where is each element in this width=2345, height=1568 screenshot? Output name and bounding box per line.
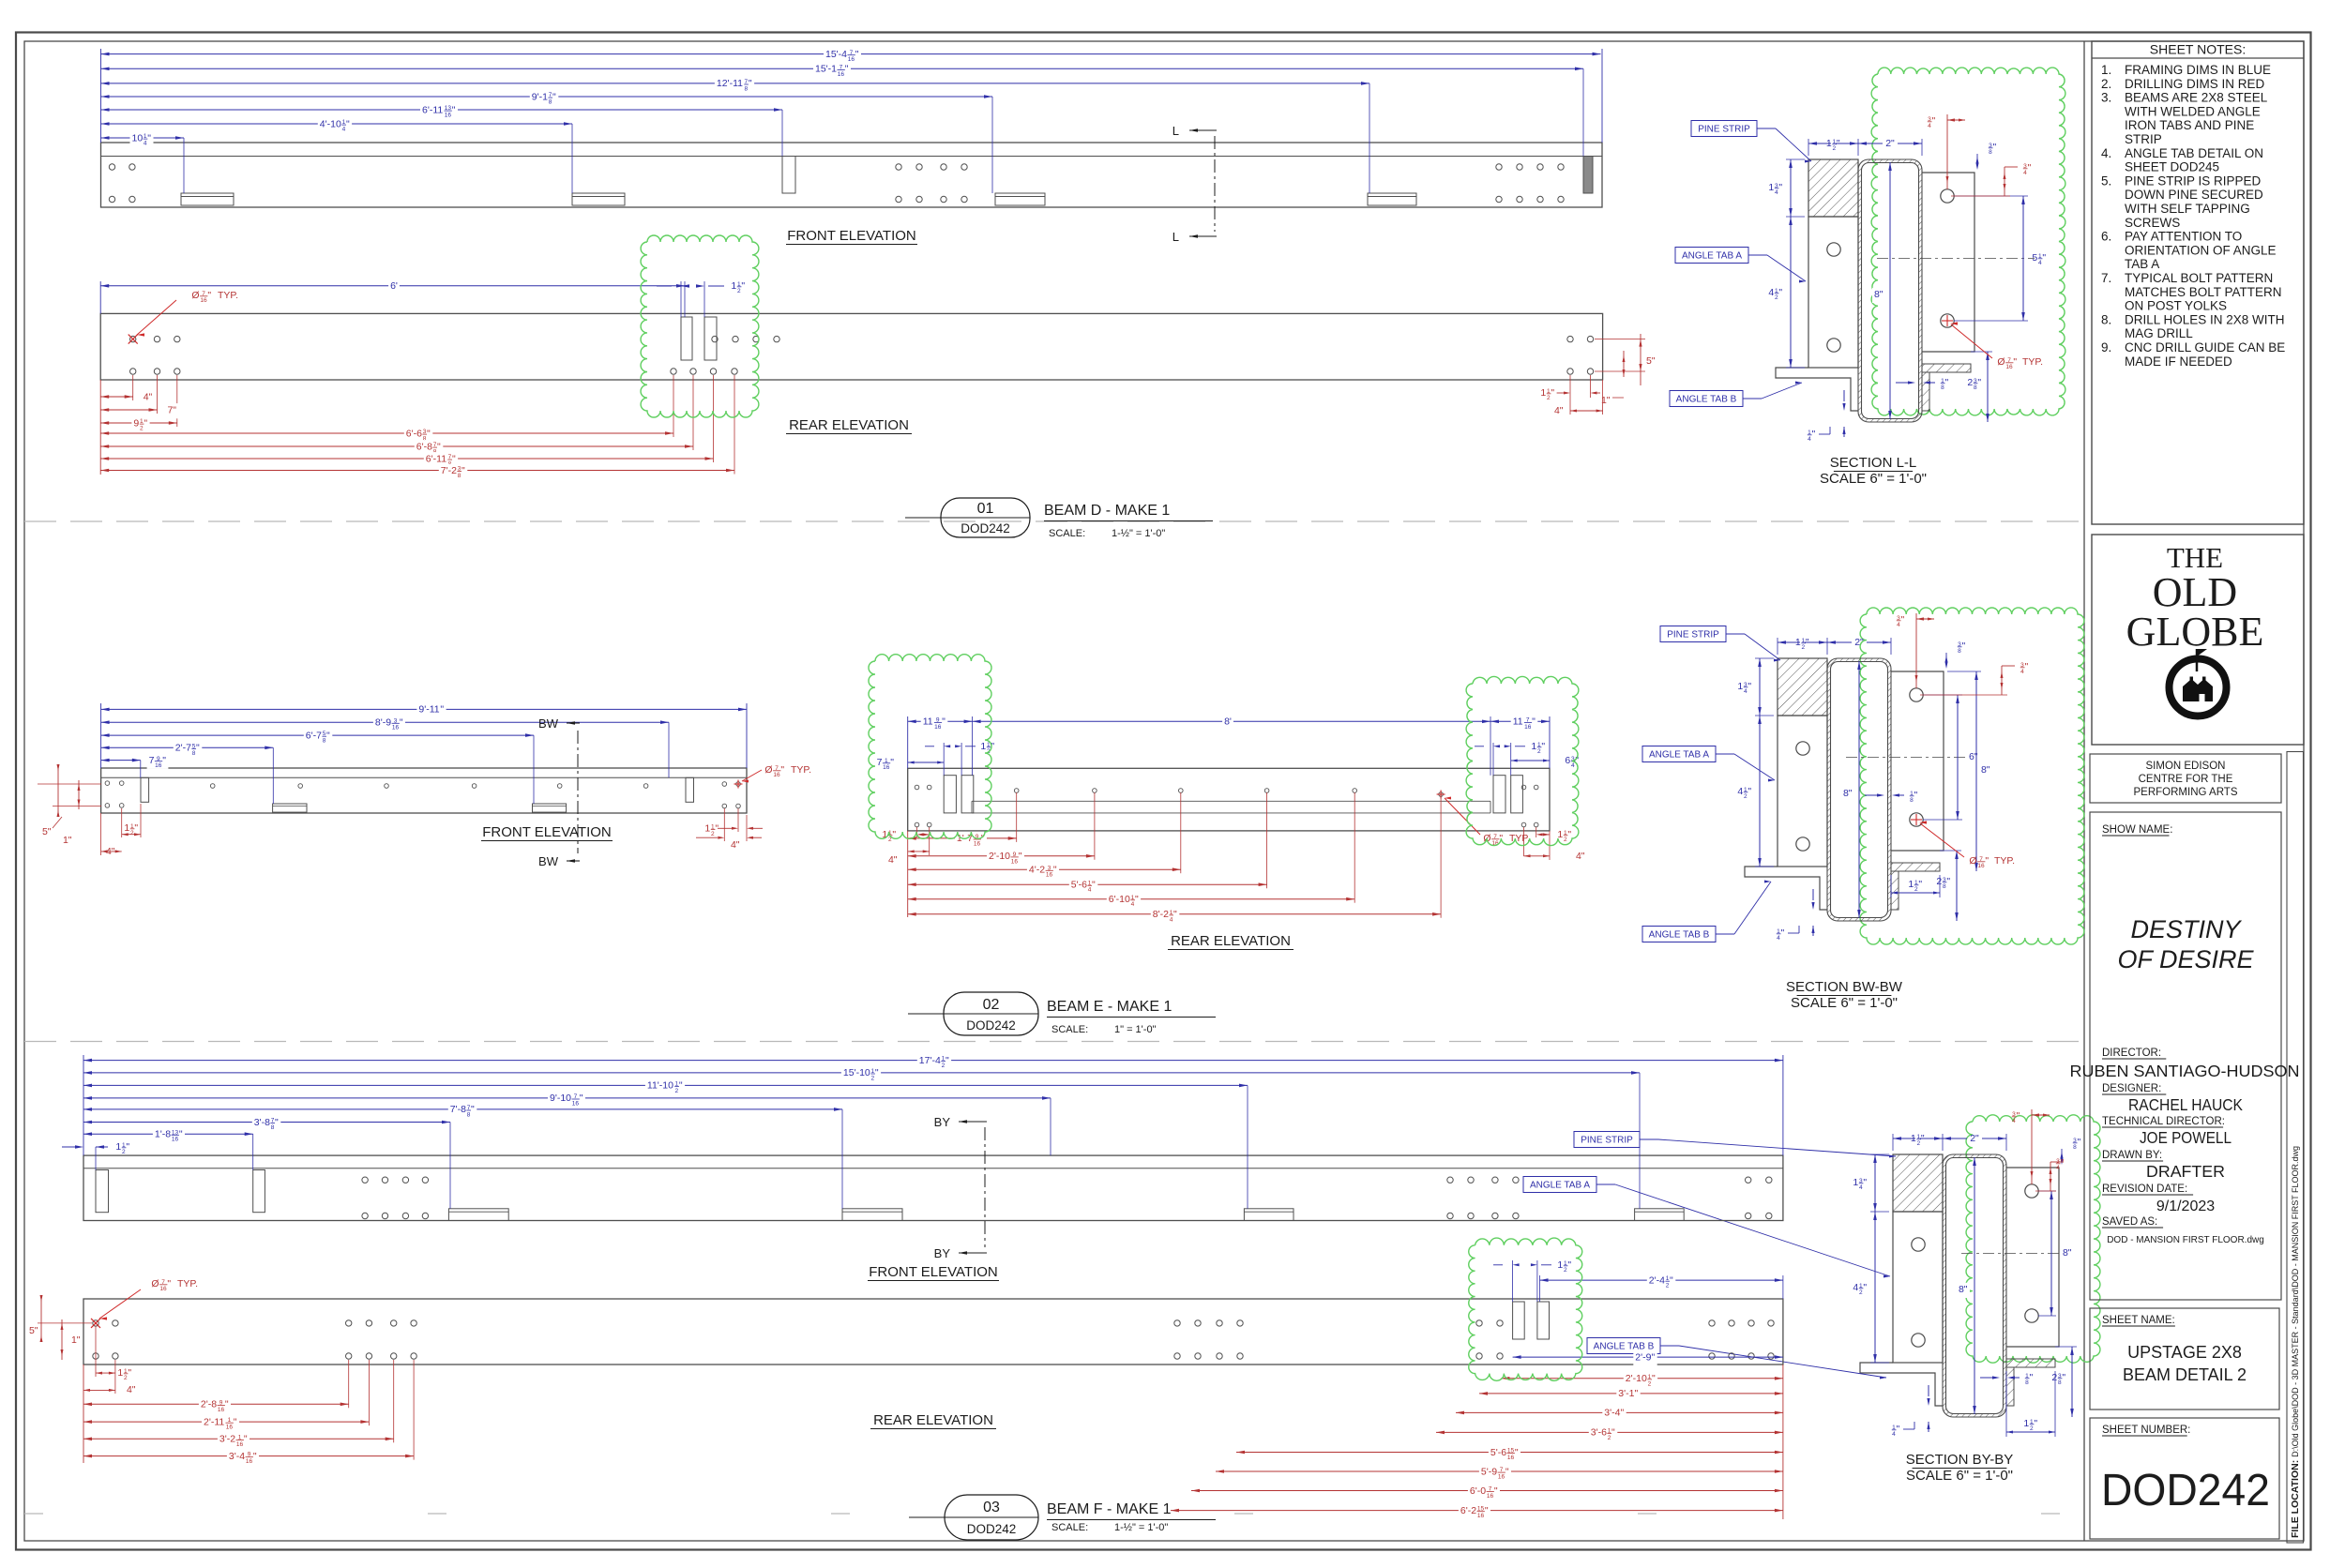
svg-text:BW: BW (538, 854, 559, 868)
revision cloud beam D rear slots (641, 235, 759, 417)
svg-text:16: 16 (1507, 1455, 1515, 1461)
beam D framing dim 9'-1 (101, 96, 993, 98)
svg-text:1: 1 (115, 1141, 121, 1153)
svg-text:5.: 5. (2101, 173, 2111, 188)
beam E rear drilling dim 4'-2 (908, 868, 1181, 870)
svg-text:16: 16 (236, 1441, 244, 1448)
svg-text:": " (253, 1451, 257, 1462)
svg-text:4: 4 (1744, 688, 1747, 695)
beam D dim leader (1582, 68, 1584, 156)
beam D rear pine strip dim 6ft (100, 285, 685, 287)
svg-text:": " (2042, 252, 2046, 264)
section BY-BY red dim 3/4 upper (2031, 1109, 2033, 1184)
svg-text:": " (326, 730, 330, 741)
svg-text:8': 8' (1224, 716, 1232, 728)
svg-text:": " (1494, 1485, 1498, 1497)
svg-text:1: 1 (117, 1367, 123, 1379)
svg-text:9.: 9. (2101, 340, 2111, 354)
beam E front drill leader Ø7/16 TYP (734, 783, 743, 785)
svg-text:DESIGNER:: DESIGNER: (2102, 1083, 2161, 1094)
svg-text:GLOBE: GLOBE (2126, 609, 2264, 655)
section L-L dim 1-1/2 top (1808, 139, 1809, 156)
svg-text:2: 2 (2051, 1372, 2057, 1383)
beam E framing dim 2'-7 (101, 746, 274, 748)
beam D dim leader (1369, 83, 1370, 193)
svg-text:ANGLE TAB A: ANGLE TAB A (1682, 251, 1742, 262)
svg-text:SCREWS: SCREWS (2125, 216, 2180, 230)
svg-text:16: 16 (246, 1458, 253, 1465)
svg-text:8: 8 (1958, 648, 1961, 655)
svg-text:TYP.: TYP. (791, 764, 811, 776)
revision cloud section BW-BW (1860, 608, 2084, 944)
svg-text:16: 16 (392, 725, 400, 731)
beam E front slot right (686, 777, 694, 802)
svg-text:6'-6: 6'-6 (406, 428, 422, 439)
svg-text:": " (890, 757, 894, 768)
svg-text:2: 2 (870, 1075, 874, 1081)
svg-text:": " (1505, 1466, 1509, 1477)
section L-L label ANGLE TAB B (1670, 391, 1743, 407)
beam D framing dimension extension lines (100, 49, 102, 143)
svg-text:9: 9 (133, 417, 139, 429)
beam D front elevation body (101, 143, 1603, 207)
svg-text:DOWN PINE SECURED: DOWN PINE SECURED (2125, 188, 2263, 202)
beam F rear drilling dim 2'-10 (1501, 1378, 1783, 1380)
svg-text:SECTION L-L: SECTION L-L (1830, 455, 1917, 471)
beam F rear blue slot dims (1512, 1260, 1514, 1302)
beam E rear slot dims 1-1/2 (943, 743, 945, 776)
section L-L red dim 3/4 right (2005, 166, 2018, 168)
section BY-BY red dim 3/4 right (2050, 1161, 2064, 1163)
section BY-BY label PINE STRIP (1574, 1132, 1640, 1148)
section L-L dim 1/8 wall (1908, 381, 1915, 384)
section L-L red drill leader (1942, 320, 1953, 322)
svg-text:4: 4 (1853, 1282, 1858, 1293)
svg-text:": " (452, 453, 456, 464)
svg-text:BEAMS ARE 2X8 STEEL: BEAMS ARE 2X8 STEEL (2125, 91, 2268, 105)
svg-text:3'-8: 3'-8 (254, 1117, 270, 1128)
svg-text:6': 6' (390, 280, 398, 292)
svg-text:": " (48, 826, 52, 837)
svg-text:4: 4 (2020, 669, 2024, 675)
svg-text:PINE STRIP: PINE STRIP (1581, 1136, 1633, 1146)
svg-text:2: 2 (1744, 793, 1747, 800)
svg-text:8: 8 (2025, 1380, 2029, 1386)
svg-text:SHEET NUMBER:: SHEET NUMBER: (2102, 1425, 2190, 1436)
svg-text:": " (1551, 387, 1554, 399)
svg-text:": " (452, 104, 456, 115)
svg-text:": " (440, 704, 444, 716)
svg-text:": " (2068, 1247, 2072, 1259)
section BY-BY dim 2in top (1943, 1138, 1967, 1139)
svg-text:ORIENTATION OF ANGLE: ORIENTATION OF ANGLE (2125, 243, 2277, 257)
svg-text:6: 6 (1565, 755, 1570, 766)
svg-text:": " (1532, 716, 1536, 728)
beam E rear drilling dim 5'-6 (908, 883, 1267, 885)
beam F front framing dims (83, 1055, 84, 1155)
svg-text:2: 2 (1648, 1380, 1652, 1387)
beam F dim leader (252, 1134, 254, 1169)
svg-text:15'-4: 15'-4 (825, 49, 847, 60)
section BW-BW red dim 3/4 right (2002, 665, 2015, 667)
svg-text:REVISION DATE:: REVISION DATE: (2102, 1184, 2187, 1195)
revision cloud beam F rear slots (1469, 1238, 1582, 1380)
svg-text:BEAM D - MAKE 1: BEAM D - MAKE 1 (1044, 503, 1170, 519)
beam D framing dim 12'-11 (101, 83, 1370, 84)
drawing title bubble 02 BEAM E (908, 1013, 944, 1015)
svg-text:": " (1837, 138, 1840, 149)
section BW-BW label PINE STRIP (1660, 626, 1726, 642)
section BW-BW angle tab B (hatched) (1891, 863, 1940, 871)
section BW-BW steel 2x8 tube (hatched wall) (1827, 658, 1891, 921)
revision cloud section L-L (1871, 68, 2065, 415)
svg-text:1: 1 (2023, 1418, 2029, 1429)
sheet name panel (2090, 1308, 2279, 1410)
beam F rear slots right (1513, 1302, 1525, 1339)
section L-L dim 1/4 bottom left (1842, 403, 1845, 411)
beam F framing dim 1'-8 (83, 1133, 253, 1135)
section BW-BW label ANGLE TAB A (1642, 746, 1716, 762)
svg-text:": " (112, 846, 115, 857)
svg-text:1" = 1'-0": 1" = 1'-0" (1114, 1024, 1157, 1035)
svg-text:": " (1621, 1408, 1625, 1419)
svg-text:6'-0: 6'-0 (1470, 1485, 1486, 1497)
beam E front framing dims (100, 703, 102, 768)
svg-text:2: 2 (2030, 1425, 2034, 1432)
svg-text:": " (346, 118, 350, 129)
svg-text:TYP.: TYP. (1994, 855, 2015, 867)
svg-text:2: 2 (130, 830, 134, 837)
svg-text:": " (1932, 115, 1936, 127)
svg-text:8: 8 (1941, 384, 1944, 391)
svg-text:DOD242: DOD242 (966, 1018, 1016, 1033)
svg-text:": " (128, 1367, 131, 1379)
svg-text:WITH WELDED ANGLE: WITH WELDED ANGLE (2125, 104, 2261, 118)
beam F rear drilling dim 3'-4 (83, 1455, 414, 1457)
svg-text:": " (780, 764, 784, 776)
svg-text:": " (149, 391, 153, 402)
beam F rear red drilling dims right (1782, 1364, 1784, 1519)
beam F rear drill leader Ø7/16 TYP (91, 1319, 100, 1328)
svg-text:BEAM F - MAKE 1: BEAM F - MAKE 1 (1047, 1501, 1172, 1517)
svg-text:TYP.: TYP. (2022, 356, 2043, 368)
beam E rear red left end dims (916, 827, 918, 837)
svg-text:6'-8: 6'-8 (416, 441, 432, 452)
svg-text:": " (1747, 681, 1751, 692)
svg-text:": " (1173, 909, 1177, 920)
svg-text:03: 03 (983, 1500, 1000, 1515)
svg-text:2: 2 (1775, 294, 1778, 301)
svg-text:16: 16 (1477, 1513, 1485, 1519)
svg-text:15'-10: 15'-10 (843, 1067, 870, 1078)
section BY-BY post yoke plate (2006, 1168, 2059, 1347)
svg-text:8: 8 (2058, 1380, 2062, 1386)
show info panel (2090, 812, 2281, 1300)
section L-L dim 2in top (1858, 143, 1883, 144)
section BY-BY label ANGLE TAB A (1523, 1177, 1596, 1193)
section BW-BW dim 1/4 bottom left (1811, 902, 1814, 910)
svg-text:BEAM DETAIL 2: BEAM DETAIL 2 (2123, 1365, 2247, 1384)
svg-text:2'-7: 2'-7 (175, 743, 191, 754)
svg-text:16: 16 (883, 764, 890, 771)
svg-text:16: 16 (934, 724, 942, 731)
beam D framing dim 4'-10 (101, 123, 573, 125)
svg-text:3.: 3. (2101, 91, 2111, 105)
svg-text:4: 4 (1768, 287, 1774, 298)
svg-text:2'-10: 2'-10 (1626, 1373, 1647, 1384)
svg-text:SCALE:: SCALE: (1051, 1024, 1088, 1035)
svg-text:2: 2 (124, 1375, 128, 1381)
sidebar separator line (2083, 41, 2085, 1541)
section BW-BW red dim 3/4 upper (1915, 613, 1917, 688)
svg-text:2: 2 (674, 1088, 678, 1094)
svg-text:16: 16 (838, 71, 845, 78)
svg-text:": " (1747, 786, 1751, 797)
beam F front angle-tab flange 4 (1635, 1209, 1685, 1221)
svg-text:1: 1 (1768, 182, 1774, 193)
section BY-BY steel 2x8 tube (hatched wall) (1943, 1154, 2006, 1417)
beam F front elevation body (83, 1155, 1783, 1220)
svg-text:": " (1849, 788, 1853, 799)
svg-text:": " (244, 1434, 248, 1445)
section BW-BW dim right holes (1923, 694, 1962, 696)
beam E rear pine strip recess (972, 800, 1490, 802)
svg-text:4: 4 (2056, 1165, 2060, 1171)
svg-text:": " (1897, 1424, 1900, 1435)
svg-text:15'-1: 15'-1 (815, 64, 837, 75)
svg-text:CNC DRILL GUIDE CAN BE: CNC DRILL GUIDE CAN BE (2125, 340, 2285, 354)
svg-text:16: 16 (1524, 724, 1532, 731)
svg-text:": " (1670, 1274, 1673, 1286)
svg-text:1-½" = 1'-0": 1-½" = 1'-0" (1114, 1522, 1168, 1533)
svg-text:5'-6: 5'-6 (1071, 880, 1087, 891)
svg-text:ANGLE TAB B: ANGLE TAB B (1649, 930, 1710, 941)
svg-text:4: 4 (1777, 935, 1780, 942)
section BY-BY dim 2-3/8 right (2055, 1346, 2077, 1348)
svg-text:SCALE 6" = 1'-0": SCALE 6" = 1'-0" (1906, 1468, 2013, 1484)
svg-text:2: 2 (1564, 1267, 1567, 1274)
beam F rear red drilling dims left-mid (348, 1360, 350, 1408)
beam E rear red drilling dims (907, 831, 909, 917)
svg-text:CENTRE FOR THE: CENTRE FOR THE (2139, 774, 2233, 785)
svg-text:SHEET DOD245: SHEET DOD245 (2125, 160, 2219, 174)
svg-text:01: 01 (977, 501, 994, 517)
svg-text:": " (1652, 1351, 1656, 1363)
section L-L dim right holes (1954, 195, 2028, 197)
section BY-BY angle tab A bottom leg (1860, 1363, 1943, 1406)
svg-text:": " (1778, 287, 1782, 298)
svg-text:": " (1987, 764, 1990, 776)
svg-text:": " (679, 1080, 683, 1092)
beam E rear drilling dim 8'-2 (908, 913, 1441, 915)
svg-text:": " (234, 1416, 237, 1427)
beam F dim leader (1247, 1085, 1248, 1208)
svg-text:Ø: Ø (191, 290, 199, 301)
svg-text:3'-1: 3'-1 (1618, 1388, 1634, 1399)
beam D rear elevation body (100, 313, 1602, 380)
svg-text:3'-6: 3'-6 (1591, 1427, 1607, 1439)
svg-text:": " (1611, 1427, 1615, 1439)
beam F rear dim 2ft-9 (1513, 1356, 1783, 1358)
svg-text:2: 2 (1967, 377, 1973, 388)
section BW-BW red drill leader (1911, 819, 1922, 821)
svg-text:SCALE 6" = 1'-0": SCALE 6" = 1'-0" (1820, 471, 1927, 487)
svg-text:4: 4 (1131, 901, 1135, 908)
svg-text:2: 2 (1537, 748, 1541, 755)
svg-text:6'-11: 6'-11 (422, 104, 443, 115)
section BY-BY dim 1-1/2 top (1892, 1134, 1894, 1151)
beam E rear drilling dim 1'-7 (908, 837, 1017, 839)
svg-text:9'-11: 9'-11 (418, 704, 439, 716)
svg-text:2: 2 (122, 1149, 126, 1155)
svg-text:": " (1485, 1505, 1489, 1516)
beam F dim leader (95, 1147, 97, 1170)
section BW-BW dim 1/8 wall (1877, 793, 1884, 796)
section BY-BY dim right holes (2038, 1190, 2056, 1192)
svg-text:16: 16 (445, 113, 452, 119)
svg-text:9'-10: 9'-10 (550, 1093, 571, 1104)
svg-text:": " (942, 716, 946, 728)
beam F rear drilling dim 2'-8 (83, 1403, 349, 1405)
section BY-BY dim 1/4 bottom left (1927, 1398, 1929, 1406)
svg-text:4: 4 (1892, 1431, 1896, 1438)
beam D rear bolt holes mid upper row (712, 336, 718, 341)
svg-text:": " (1914, 790, 1918, 801)
svg-text:": " (2030, 1372, 2034, 1383)
svg-text:2: 2 (1859, 1289, 1863, 1296)
svg-text:6.: 6. (2101, 230, 2111, 244)
svg-text:2: 2 (1832, 145, 1836, 152)
svg-text:": " (1567, 829, 1571, 840)
section BW-BW dim 1-1/2 bottom right (1890, 875, 1892, 897)
svg-text:FRONT ELEVATION: FRONT ELEVATION (787, 228, 916, 244)
svg-text:2'-9: 2'-9 (1635, 1351, 1651, 1363)
svg-text:ANGLE TAB B: ANGLE TAB B (1676, 395, 1737, 405)
svg-text:16: 16 (226, 1425, 234, 1431)
beam E framing dim 9'-11 (101, 708, 747, 710)
section BW-BW dim 3/8 top right (1945, 653, 1947, 660)
svg-text:1: 1 (980, 741, 986, 752)
svg-text:8: 8 (1989, 149, 1992, 156)
drawing title bubble 01 BEAM D (905, 517, 941, 519)
svg-text:DRILL HOLES IN 2X8 WITH: DRILL HOLES IN 2X8 WITH (2125, 312, 2285, 326)
svg-text:1: 1 (1540, 387, 1546, 399)
svg-text:16: 16 (159, 1286, 167, 1292)
section BY-BY dim 3/8 top right (2061, 1149, 2063, 1156)
drawing title bubble 03 BEAM F (909, 1516, 945, 1518)
svg-text:": " (1019, 851, 1022, 862)
svg-text:SAVED AS:: SAVED AS: (2102, 1216, 2157, 1228)
svg-text:3'-2: 3'-2 (219, 1434, 235, 1445)
beam D rear bolt holes right group (1567, 336, 1573, 341)
svg-text:": " (1918, 879, 1922, 890)
svg-text:16: 16 (1498, 1474, 1505, 1481)
svg-text:": " (179, 1129, 183, 1140)
zone divider dashed line 2 (24, 1041, 2084, 1043)
svg-text:9/1/2023: 9/1/2023 (2156, 1199, 2215, 1214)
beam E framing dim 8'-9 (101, 721, 669, 723)
svg-text:SCALE 6" = 1'-0": SCALE 6" = 1'-0" (1791, 995, 1898, 1011)
beam E dim leader (140, 761, 142, 778)
section BW-BW dim 4-1/2 left (1755, 866, 1774, 867)
svg-text:": " (1652, 1373, 1656, 1384)
section L-L dim 4-1/2 left (1786, 367, 1805, 369)
section BY-BY pine strip (hatched) (1893, 1154, 1943, 1212)
svg-text:2": 2" (1970, 1133, 1979, 1144)
beam F rear drilling dim 6'-2 (1171, 1510, 1783, 1512)
svg-text:PINE STRIP: PINE STRIP (1667, 630, 1719, 641)
svg-text:": " (2034, 1418, 2037, 1429)
svg-text:2'-4: 2'-4 (1649, 1274, 1665, 1286)
svg-text:": " (437, 441, 441, 452)
svg-text:": " (1962, 641, 1966, 652)
svg-text:DRAFTER: DRAFTER (2146, 1162, 2225, 1181)
svg-text:IRON TABS AND PINE: IRON TABS AND PINE (2125, 118, 2254, 132)
svg-text:2'-8: 2'-8 (201, 1399, 217, 1410)
section cut marker BW-BW (577, 731, 579, 853)
svg-text:RUBEN SANTIAGO-HUDSON: RUBEN SANTIAGO-HUDSON (2070, 1062, 2300, 1080)
revision cloud section BY-BY (1966, 1115, 2100, 1363)
svg-text:1: 1 (704, 823, 710, 835)
beam D rear drilling dims right end (1595, 339, 1645, 340)
svg-text:SECTION BW-BW: SECTION BW-BW (1786, 979, 1903, 995)
section L-L red dim 3/4 upper (1946, 114, 1948, 189)
svg-text:8: 8 (744, 85, 748, 92)
beam E front red drilling dims left (57, 768, 59, 813)
section L-L pine strip (hatched) (1808, 159, 1858, 217)
svg-text:BY: BY (934, 1246, 951, 1260)
svg-text:1: 1 (1826, 138, 1832, 149)
svg-text:6'-2: 6'-2 (1460, 1505, 1476, 1516)
svg-text:7: 7 (149, 755, 155, 766)
svg-text:5'-9: 5'-9 (1481, 1466, 1497, 1477)
svg-text:7'-2: 7'-2 (441, 465, 457, 476)
beam D framing dim 6'-11 (101, 109, 783, 111)
section BY-BY dim 1-1/2 bottom right (2005, 1371, 2007, 1437)
svg-text:6'-11: 6'-11 (426, 453, 446, 464)
svg-text:PINE STRIP IS RIPPED: PINE STRIP IS RIPPED (2125, 173, 2262, 188)
beam E rear red end dims (1536, 827, 1537, 837)
beam E front slot left (141, 777, 149, 802)
svg-text:SECTION BY-BY: SECTION BY-BY (1906, 1452, 2013, 1468)
svg-text:": " (875, 1067, 879, 1078)
beam D framing dim 15'-4 (101, 53, 1601, 55)
beam D front slot left (782, 157, 795, 194)
svg-text:L: L (1172, 230, 1179, 244)
svg-text:4.: 4. (2101, 146, 2111, 160)
sheet number panel (2090, 1418, 2279, 1539)
svg-text:4: 4 (1859, 1184, 1863, 1191)
svg-text:SCALE:: SCALE: (1049, 528, 1085, 539)
svg-text:5'-6: 5'-6 (1490, 1447, 1506, 1458)
svg-text:SIMON EDISON: SIMON EDISON (2146, 761, 2226, 772)
svg-text:": " (35, 1325, 38, 1336)
svg-text:1: 1 (1737, 681, 1743, 692)
svg-text:SHOW NAME:: SHOW NAME: (2102, 824, 2172, 836)
svg-text:TAB A: TAB A (2125, 257, 2159, 271)
beam E front angle-tab flange 1 (273, 804, 307, 812)
section BW-BW dim 8in tube (1858, 661, 1860, 918)
beam D dim leader (183, 138, 185, 193)
svg-text:MADE IF NEEDED: MADE IF NEEDED (2125, 354, 2232, 369)
beam E rear elevation body (908, 768, 1550, 831)
beam D front angle-tab flange 2 (572, 193, 625, 205)
svg-text:16: 16 (1977, 863, 1985, 869)
svg-text:": " (1921, 1133, 1925, 1144)
svg-text:UPSTAGE 2X8: UPSTAGE 2X8 (2127, 1343, 2242, 1362)
svg-text:RACHEL HAUCK: RACHEL HAUCK (2128, 1095, 2243, 1114)
svg-text:ON POST YOLKS: ON POST YOLKS (2125, 299, 2227, 313)
